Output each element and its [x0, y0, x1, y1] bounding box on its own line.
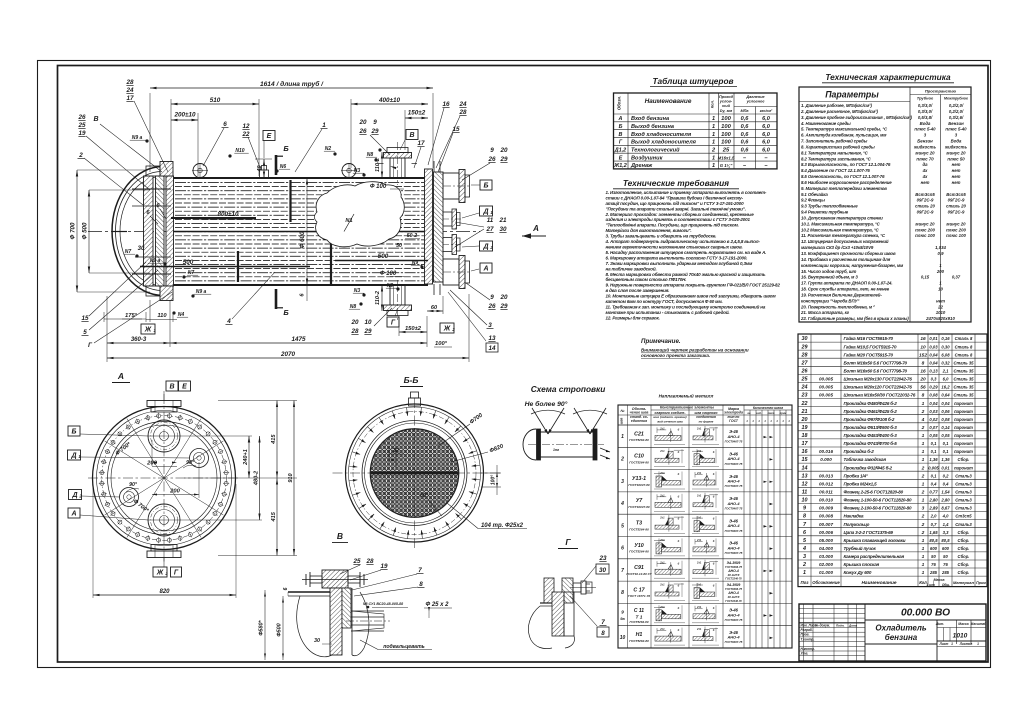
svg-text:нет: нет	[921, 180, 930, 185]
svg-text:8.2 Температура застывания, °С: 8.2 Температура застывания, °С	[801, 156, 872, 161]
svg-text:Б-Б: Б-Б	[404, 375, 419, 385]
svg-text:Масштаб: Масштаб	[971, 622, 988, 626]
svg-text:6,0: 6,0	[943, 377, 949, 382]
svg-text:7: 7	[418, 567, 422, 574]
dimension 150±2 bottom	[399, 316, 427, 336]
right tube sheet hatched	[425, 169, 433, 284]
left head outer ellipse	[112, 167, 163, 296]
pos 1 leader	[295, 122, 328, 172]
svg-text:8.4 Давление по ГОСТ 12.: 8.4 Давление по ГОСТ 12.1.007-76	[801, 168, 870, 173]
view А box Д1	[68, 450, 191, 460]
svg-text:чение шва: чение шва	[630, 411, 649, 415]
pos 2 leader	[78, 152, 144, 205]
svg-text:2: 2	[921, 514, 925, 520]
svg-text:9а: 9а	[620, 616, 625, 621]
svg-text:1. Давление рабочее, МПа(кгс/с: 1. Давление рабочее, МПа(кгс/см²)	[801, 103, 872, 108]
detail В dim Ф580	[259, 590, 267, 660]
welds table title	[659, 393, 714, 399]
view ББ bolt ticks	[349, 407, 480, 538]
view А boxes В Е top	[164, 381, 191, 400]
svg-text:1: 1	[922, 546, 925, 552]
weld label N9a mid	[148, 258, 167, 266]
svg-text:8: 8	[419, 581, 423, 588]
svg-text:200±10: 200±10	[174, 112, 196, 119]
svg-text:плюс 5-40: плюс 5-40	[945, 127, 967, 132]
svg-text:Пространство: Пространство	[925, 89, 957, 94]
svg-text:6,0: 6,0	[762, 124, 771, 130]
svg-text:2±1: 2±1	[696, 427, 702, 431]
svg-text:6: 6	[223, 121, 227, 128]
svg-text:ГОСТ9467-75: ГОСТ9467-75	[725, 551, 743, 555]
svg-text:Листов: Листов	[959, 642, 973, 646]
svg-text:13: 13	[488, 335, 496, 342]
tube bundle lines	[175, 183, 424, 281]
svg-text:100°: 100°	[435, 341, 448, 347]
svg-text:29: 29	[499, 156, 508, 163]
svg-text:4: 4	[921, 417, 925, 423]
svg-text:19: 19	[78, 130, 86, 137]
svg-text:Масса: Масса	[958, 622, 969, 626]
svg-text:16: 16	[920, 369, 926, 375]
svg-text:0,6: 0,6	[741, 132, 750, 138]
svg-text:2,80: 2,80	[928, 498, 938, 503]
svg-text:Пробка М24х1,5: Пробка М24х1,5	[844, 481, 878, 487]
svg-text:Кол.: Кол.	[710, 100, 715, 108]
svg-text:Сталь 35: Сталь 35	[953, 377, 974, 382]
svg-text:"Посудини та апарати стальні з: "Посудини та апарати стальні зварні. Заг…	[606, 206, 746, 211]
right channel flange	[434, 172, 444, 282]
svg-text:32: 32	[393, 448, 400, 454]
view ББ dim 32	[389, 446, 404, 468]
svg-text:С 11: С 11	[634, 608, 644, 614]
svg-text:Ж: Ж	[443, 326, 451, 333]
svg-text:00.013: 00.013	[819, 473, 833, 478]
svg-text:Ж: Ж	[144, 327, 152, 334]
svg-text:услов-: услов-	[719, 100, 733, 104]
svg-text:8,67: 8,67	[941, 506, 950, 511]
thickness 6 callout	[300, 285, 308, 301]
weld label N9 right	[411, 260, 424, 269]
svg-text:ГОСТ: ГОСТ	[729, 419, 739, 423]
svg-text:–: –	[764, 163, 767, 169]
svg-text:8: 8	[803, 514, 806, 520]
svg-text:6: 6	[283, 587, 289, 590]
svg-text:9: 9	[490, 147, 494, 154]
right end studs	[434, 161, 440, 295]
view title Б-Б	[400, 375, 423, 387]
svg-text:00.006: 00.006	[819, 530, 833, 535]
dimension 500 left	[140, 259, 310, 267]
svg-text:14: 14	[488, 345, 496, 352]
view А outer circles	[93, 407, 236, 550]
svg-text:7: 7	[601, 619, 605, 626]
svg-text:16: 16	[920, 336, 926, 342]
detail В dim 6	[283, 587, 289, 596]
svg-text:50-2: 50-2	[407, 233, 417, 239]
detail В dim Ф500	[277, 596, 285, 660]
svg-text:28: 28	[125, 79, 134, 86]
dimension 175deg	[104, 312, 146, 322]
svg-text:152: 152	[919, 352, 927, 358]
svg-text:0,04: 0,04	[929, 352, 938, 357]
svg-text:0,7: 0,7	[931, 522, 937, 527]
svg-text:Таблица штуцеров: Таблица штуцеров	[652, 76, 733, 86]
svg-text:2: 2	[620, 456, 624, 462]
view ББ label Ф820	[451, 443, 505, 462]
view А dim 820	[93, 484, 236, 598]
svg-text:Д: Д	[482, 244, 488, 251]
view box Д1 right	[462, 206, 493, 218]
svg-text:2±1: 2±1	[659, 516, 665, 520]
svg-text:Обозн.: Обозн.	[617, 96, 622, 110]
dimension 40 vent	[255, 159, 272, 178]
svg-text:1: 1	[621, 434, 624, 440]
svg-text:жидкость: жидкость	[913, 144, 936, 149]
svg-text:ЭА-395/9: ЭА-395/9	[727, 583, 741, 587]
svg-text:01.000: 01.000	[819, 570, 833, 575]
detail В bolt assembly	[302, 570, 368, 588]
svg-text:Разраб.: Разраб.	[801, 628, 813, 632]
svg-text:6,0: 6,0	[762, 140, 771, 146]
detail В tube	[346, 611, 390, 631]
pos stack 9-20-26-29 right bottom	[466, 283, 508, 310]
svg-text:ГОСТ2246-70: ГОСТ2246-70	[725, 576, 742, 580]
svg-text:4х: 4х	[922, 168, 928, 173]
svg-text:Ф 600: Ф 600	[299, 231, 306, 248]
svg-text:Е: Е	[182, 384, 187, 391]
svg-text:00.005: 00.005	[819, 377, 833, 382]
svg-text:9: 9	[621, 610, 624, 615]
svg-text:25: 25	[352, 558, 361, 565]
svg-text:360-3: 360-3	[131, 337, 147, 343]
svg-text:Дата: Дата	[848, 623, 858, 627]
svg-text:0,9: 0,9	[938, 251, 945, 256]
svg-text:21: 21	[801, 409, 808, 415]
svg-text:500: 500	[183, 259, 194, 266]
dimension Ф500	[82, 190, 151, 273]
svg-text:90°: 90°	[129, 482, 138, 488]
pos stack 20-9-26-29 top	[358, 119, 390, 155]
svg-text:ГОСТ5264-80: ГОСТ5264-80	[629, 460, 649, 464]
svg-text:В: В	[619, 132, 623, 138]
svg-text:Dу, мм: Dу, мм	[720, 109, 733, 113]
svg-text:нением герметичности наложение: нением герметичности наложением стыковых…	[606, 245, 743, 250]
svg-text:24: 24	[458, 101, 467, 108]
svg-text:Количество швов: Количество швов	[753, 406, 783, 410]
svg-text:1: 1	[922, 457, 925, 463]
sling hooks right	[600, 448, 610, 459]
svg-text:26: 26	[487, 303, 496, 310]
svg-text:0,04: 0,04	[941, 401, 950, 406]
view А label Ф700 b	[132, 498, 150, 514]
svg-text:Материал: Материал	[953, 580, 974, 585]
svg-text:конструкции "Чароба ВПУ": конструкции "Чароба ВПУ"	[801, 298, 860, 303]
svg-text:паронит: паронит	[954, 433, 973, 438]
svg-text:Вода: Вода	[951, 139, 962, 144]
svg-text:2±1: 2±1	[659, 627, 665, 631]
welds table rows	[620, 426, 773, 645]
svg-text:плюс 200: плюс 200	[915, 227, 935, 232]
svg-text:компенсации коррозии, напружен: компенсации коррозии, напружения-базарен…	[801, 263, 904, 268]
svg-text:С21: С21	[634, 431, 644, 437]
svg-text:8.1 Температура напыления, °С: 8.1 Температура напыления, °С	[801, 150, 869, 155]
pos stack 13-14	[448, 292, 498, 352]
svg-text:2: 2	[921, 465, 925, 471]
svg-text:30: 30	[599, 567, 607, 574]
dimension 110-2 nozzle В	[375, 152, 383, 178]
svg-text:15: 15	[802, 457, 809, 463]
svg-text:2±1: 2±1	[659, 427, 665, 431]
detail В pos 25 28	[340, 558, 374, 574]
svg-text:Сталь 35: Сталь 35	[953, 369, 974, 374]
detail Г pos 23-30	[582, 555, 609, 583]
svg-text:910: 910	[288, 472, 294, 482]
welds table header	[620, 406, 791, 425]
svg-text:Прокладка Ф32/Ф45 б-2: Прокладка Ф32/Ф45 б-2	[844, 464, 893, 470]
pos 15 right leader	[438, 126, 460, 172]
weld label N8 top	[366, 152, 378, 162]
svg-text:10.2 Максимальная температура,: 10.2 Максимальная температура, °С	[801, 227, 880, 232]
label 30 head	[138, 246, 145, 252]
svg-text:Ст3сп5: Ст3сп5	[955, 514, 972, 519]
svg-text:Б: Б	[619, 124, 623, 130]
view box Г bottom	[387, 311, 399, 327]
svg-text:2: 2	[921, 425, 925, 431]
svg-text:Т.контр.: Т.контр.	[801, 637, 815, 641]
svg-text:Д1,2: Д1,2	[614, 148, 626, 154]
tech char header	[825, 89, 968, 101]
svg-text:104 тр. Ф25х2: 104 тр. Ф25х2	[481, 523, 524, 529]
view А top pipe stub	[147, 401, 181, 413]
svg-text:1,36: 1,36	[941, 457, 950, 462]
weld label N8 nozzle В	[378, 148, 381, 151]
svg-text:Фланец 2-100-50-6 ГОСТ12820-80: Фланец 2-100-50-6 ГОСТ12820-80	[844, 506, 912, 511]
svg-text:9. Материал теплопередачи элем: 9. Материал теплопередачи элементов	[801, 186, 887, 191]
svg-text:Г: Г	[565, 537, 571, 547]
svg-text:0,77: 0,77	[929, 490, 938, 495]
svg-text:22: 22	[937, 304, 943, 309]
svg-text:10. Допускаемая температура ст: 10. Допускаемая температура стенки	[801, 216, 883, 221]
nozzle table title	[650, 76, 737, 87]
svg-text:№: №	[621, 409, 625, 413]
svg-text:76: 76	[943, 562, 948, 567]
svg-text:400±10: 400±10	[378, 97, 400, 104]
svg-text:А: А	[482, 266, 488, 273]
svg-text:11. Расчетная температура стен: 11. Расчетная температура стенки, °С	[801, 233, 886, 238]
svg-text:80,5: 80,5	[941, 538, 950, 543]
view title А	[112, 371, 130, 383]
svg-text:С91: С91	[634, 565, 644, 571]
svg-text:Схема строповки: Схема строповки	[531, 384, 606, 394]
svg-text:Ф 100: Ф 100	[370, 184, 387, 190]
svg-text:09Г2С-9: 09Г2С-9	[948, 210, 965, 215]
svg-text:–: –	[764, 155, 767, 161]
weld label N6	[275, 164, 290, 173]
dimension 360-3	[107, 296, 170, 362]
dimension 150±2 top	[405, 110, 428, 151]
svg-text:Ф580*: Ф580*	[259, 619, 265, 635]
svg-text:шва: шва	[620, 418, 624, 425]
svg-text:ЭА-395/9: ЭА-395/9	[727, 561, 741, 565]
svg-text:5. Температура максимальной ср: 5. Температура максимальной среды, °С	[801, 127, 888, 132]
detail В pos 8	[354, 581, 425, 596]
svg-text:20: 20	[350, 319, 359, 326]
svg-text:00.010: 00.010	[819, 498, 833, 503]
svg-text:0,15: 0,15	[921, 275, 930, 280]
tech char title	[822, 72, 954, 83]
svg-text:00.012: 00.012	[819, 482, 833, 487]
svg-text:АНО-4: АНО-4	[726, 434, 740, 439]
svg-text:ГОСТ9467-75: ГОСТ9467-75	[725, 462, 743, 466]
svg-text:13: 13	[802, 473, 808, 479]
svg-text:ГОСТ 16771-76: ГОСТ 16771-76	[628, 594, 650, 598]
view title В	[332, 531, 348, 543]
svg-text:20: 20	[358, 119, 367, 126]
svg-text:АНО-4: АНО-4	[726, 545, 740, 550]
pos stack 26-25-19	[77, 114, 150, 190]
svg-text:сталь 20: сталь 20	[946, 204, 966, 209]
sling ropes	[531, 408, 607, 434]
label 50-2	[405, 233, 420, 239]
svg-text:Вода: Вода	[920, 121, 931, 126]
svg-text:Сталь 8: Сталь 8	[955, 336, 973, 341]
svg-text:Ф 500: Ф 500	[82, 222, 89, 239]
weld label N8 bottom right	[349, 302, 363, 310]
svg-text:1: 1	[922, 441, 925, 447]
svg-text:7: 7	[621, 568, 624, 574]
svg-text:10: 10	[364, 319, 372, 326]
svg-text:8. Характеристика рабочей сред: 8. Характеристика рабочей среды	[801, 144, 875, 149]
weld label N10	[228, 148, 248, 158]
svg-text:Шпилька М20х130 ГОСТ22042-76: Шпилька М20х130 ГОСТ22042-76	[844, 377, 913, 382]
view ББ dim 100deg	[481, 465, 501, 495]
nozzle В bore lines	[394, 158, 402, 178]
svg-text:2470х820х910: 2470х820х910	[925, 316, 955, 321]
svg-text:Примечание.: Примечание.	[641, 338, 681, 345]
left flange studs	[112, 189, 171, 274]
svg-text:У13-1: У13-1	[632, 476, 646, 482]
svg-text:24: 24	[125, 87, 134, 94]
dimension 110-2 nozzle Г	[375, 285, 383, 311]
svg-text:30: 30	[499, 226, 507, 233]
svg-text:21. Масса аппарата, кг: 21. Масса аппарата, кг	[800, 310, 850, 315]
svg-text:2,0: 2,0	[930, 514, 937, 519]
svg-text:А: А	[532, 224, 539, 233]
svg-text:24: 24	[801, 385, 808, 391]
svg-text:00.011: 00.011	[819, 490, 833, 495]
svg-text:0,6: 0,6	[741, 148, 750, 154]
svg-text:Сталь 35: Сталь 35	[953, 393, 974, 398]
view А dim 240+1	[164, 436, 252, 478]
svg-text:ГОСТ5264-80: ГОСТ5264-80	[629, 639, 649, 643]
svg-text:17: 17	[417, 140, 425, 147]
svg-text:05.000: 05.000	[819, 538, 833, 543]
svg-text:25: 25	[801, 377, 809, 383]
svg-text:единения: единения	[631, 419, 647, 423]
svg-text:Лист: Лист	[939, 642, 949, 646]
svg-text:3: 3	[488, 322, 492, 329]
svg-text:10: 10	[938, 287, 943, 292]
svg-text:0,16: 0,16	[941, 336, 950, 341]
svg-text:21: 21	[498, 217, 507, 224]
svg-text:минус 20: минус 20	[915, 221, 935, 226]
svg-text:Дренаж: Дренаж	[630, 163, 653, 169]
svg-text:Д: Д	[71, 492, 77, 499]
svg-text:плюс 100: плюс 100	[915, 233, 935, 238]
svg-text:1010: 1010	[936, 310, 946, 315]
lifting lug right	[339, 163, 359, 178]
svg-text:Д: Д	[70, 453, 76, 460]
svg-text:6,0: 6,0	[762, 116, 771, 122]
svg-text:150±2: 150±2	[408, 110, 426, 117]
svg-text:минус 20: минус 20	[915, 150, 935, 155]
svg-text:2,1: 2,1	[942, 369, 949, 374]
svg-text:0,1: 0,1	[931, 473, 937, 478]
svg-text:22. Габаритные размеры, мм (бе: 22. Габаритные размеры, мм (без в крыш х…	[800, 316, 909, 321]
view ББ label Ф700	[438, 412, 485, 446]
svg-text:100: 100	[721, 116, 731, 122]
svg-text:1пв: 1пв	[553, 448, 559, 452]
svg-text:12: 12	[242, 123, 250, 130]
svg-text:1: 1	[922, 554, 925, 560]
svg-text:паронит: паронит	[954, 409, 973, 414]
svg-text:Прокладка Ф513/Ф500 б-3: Прокладка Ф513/Ф500 б-3	[844, 424, 898, 430]
view А dim 200 a	[146, 440, 177, 467]
svg-text:30: 30	[802, 336, 808, 342]
svg-text:Техническая характеристика: Техническая характеристика	[825, 72, 951, 82]
svg-text:6,08: 6,08	[941, 352, 950, 357]
svg-text:бесцветным лаком столько ПФ170: бесцветным лаком столько ПФ170Н.	[606, 276, 687, 282]
svg-text:23: 23	[598, 555, 607, 562]
svg-text:0,01: 0,01	[941, 465, 950, 470]
svg-text:2±1: 2±1	[659, 538, 665, 542]
baffle plate lower 2	[237, 251, 239, 282]
svg-text:9.4 Решетки трубные: 9.4 Решетки трубные	[801, 210, 849, 215]
weld label N3 bottom right	[353, 288, 366, 297]
svg-text:100: 100	[721, 132, 731, 138]
svg-text:02.000: 02.000	[819, 562, 833, 567]
dimension 510	[171, 97, 259, 176]
svg-text:ГОСТ5264-80: ГОСТ5264-80	[629, 620, 648, 624]
view ББ label 60deg	[420, 493, 442, 516]
svg-text:29: 29	[370, 128, 379, 135]
nozzle table grid	[614, 93, 778, 169]
svg-text:Шпилька М16х50/30 ГОСТ22032-7: Шпилька М16х50/30 ГОСТ22032-76	[844, 393, 916, 398]
svg-text:0,005: 0,005	[928, 465, 939, 470]
view А centrelines	[88, 394, 240, 562]
svg-text:0,3/2,6/: 0,3/2,6/	[949, 115, 964, 120]
svg-text:С10: С10	[634, 454, 644, 460]
svg-text:10. Монтажные штуцера Е образо: 10. Монтажные штуцера Е образованием шво…	[606, 293, 777, 299]
svg-text:0,4: 0,4	[943, 482, 949, 487]
svg-text:Кожух Ду 600: Кожух Ду 600	[844, 570, 872, 575]
svg-text:29: 29	[363, 328, 372, 335]
svg-text:9. Наружные поверхности аппара: 9. Наружные поверхности аппарата покрыть…	[606, 283, 781, 288]
svg-text:415: 415	[271, 511, 277, 522]
svg-text:Гайка М10,5 ГОСТ5915-70: Гайка М10,5 ГОСТ5915-70	[844, 343, 897, 349]
svg-text:катетом 6мм по контуру ГОСТ, д: катетом 6мм по контуру ГОСТ, допускается…	[606, 299, 723, 304]
svg-text:2±1: 2±1	[696, 538, 702, 542]
svg-text:26: 26	[77, 114, 86, 121]
svg-text:нет: нет	[952, 180, 961, 185]
dimension 60 bottom right	[427, 296, 443, 314]
pos stack 9-20-26-29 right top	[462, 147, 508, 180]
svg-text:11: 11	[487, 217, 494, 224]
view box Е top	[263, 131, 275, 159]
svg-text:6,0: 6,0	[762, 132, 771, 138]
svg-text:1: 1	[922, 498, 925, 504]
svg-text:Подп.: Подп.	[836, 623, 845, 627]
